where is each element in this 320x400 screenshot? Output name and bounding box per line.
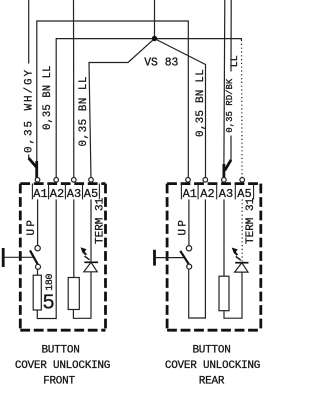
- svg-text:5: 5: [42, 293, 55, 316]
- svg-text:A3: A3: [67, 187, 81, 201]
- switch S1 top contact: [35, 246, 40, 251]
- wire R180 to A2 pin: [37, 199, 56, 318]
- LED D2 cathode bar: [235, 262, 248, 264]
- label UP right: [178, 218, 190, 236]
- arrow junction W1 into A1 wire: [29, 158, 37, 167]
- LED D1 triangle: [84, 262, 97, 272]
- pin circle A3 left: [72, 178, 77, 183]
- connector terminal bar right: [153, 250, 156, 266]
- svg-text:UP: UP: [26, 218, 38, 236]
- label 0,35 RD/BK: [225, 74, 235, 136]
- svg-text:0,35 BN LL: 0,35 BN LL: [78, 76, 90, 147]
- wire A3-right to resistor R3: [223, 199, 225, 276]
- pin circle A2 right: [203, 178, 208, 183]
- svg-text:A2: A2: [50, 187, 64, 201]
- svg-text:TERM 31: TERM 31: [94, 197, 106, 244]
- caption left line 1 BUTTON: [41, 345, 79, 357]
- wire A1 thick lead-in: [35, 161, 38, 178]
- left pin ticks: [32, 184, 99, 200]
- svg-text:0,35 WH/GY: 0,35 WH/GY: [23, 68, 35, 153]
- right pin ticks: [181, 184, 253, 200]
- pin circle A5 left: [89, 178, 94, 183]
- wire A5-left to LED: [90, 199, 92, 262]
- wire LL RD/BK: [230, 0, 232, 161]
- caption left line 2 COVER UNLOCKING: [15, 360, 110, 372]
- svg-text:REAR: REAR: [199, 376, 225, 388]
- splice branch to A2-right: [155, 39, 206, 179]
- switch S2 top contact: [186, 246, 191, 251]
- connector wire into switch blade right: [156, 257, 185, 259]
- left pin labels A1 A2 A3 A5: [33, 187, 98, 201]
- resistor R180 body: [33, 275, 41, 310]
- svg-text:VS 83: VS 83: [144, 55, 178, 69]
- pin circle A5 right: [240, 178, 245, 183]
- splice branch to A5-left: [89, 39, 155, 179]
- wire A2-left riser and splice bus to right A5 corner: [56, 39, 241, 179]
- label 0,35 BN LL (A2 left): [42, 65, 54, 130]
- svg-text:0,35 BN LL: 0,35 BN LL: [195, 69, 207, 137]
- wire R3 bottom to LED bottom right: [224, 272, 242, 318]
- label 0,35 WH/GY: [23, 68, 35, 153]
- svg-text:BUTTON: BUTTON: [41, 345, 79, 357]
- node VS 83: [152, 36, 157, 41]
- wire A1-left to switch: [37, 199, 39, 245]
- svg-text:A1: A1: [33, 187, 47, 201]
- arrow junction LL wire into A3-right: [225, 160, 231, 171]
- label LL (RD/BK wire): [230, 55, 241, 67]
- right pin labels A1 A2 A3 A5: [183, 187, 252, 201]
- pin circle A2 left: [54, 178, 59, 183]
- label VS 83: [144, 55, 178, 69]
- connector terminal bar left: [2, 248, 5, 267]
- switch S1 blade: [30, 250, 38, 265]
- LED D1 flash arrow: [81, 247, 90, 260]
- wire A3-left to resistor R2: [73, 199, 75, 277]
- caption left line 3 FRONT: [43, 376, 75, 388]
- wire A5-right dotted to LED: [241, 199, 243, 262]
- svg-text:180: 180: [45, 273, 56, 290]
- svg-text:TERM 31: TERM 31: [245, 197, 257, 244]
- label 180: [45, 273, 56, 290]
- connector wire into switch blade: [5, 256, 34, 258]
- splice VS83 riser to top: [154, 0, 156, 39]
- svg-text:A2: A2: [200, 187, 214, 201]
- wire A1-right to switch: [188, 199, 190, 245]
- right module border: [167, 184, 261, 331]
- caption right line 3 REAR: [199, 376, 225, 388]
- wire A5-right dotted drop: [241, 40, 244, 178]
- resistor R2 body: [68, 278, 79, 310]
- svg-text:COVER UNLOCKING: COVER UNLOCKING: [15, 360, 110, 372]
- label 0,35 BN LL (A2 right): [195, 69, 207, 137]
- svg-text:0,35 RD/BK: 0,35 RD/BK: [225, 78, 235, 133]
- resistor R3 body: [219, 276, 229, 311]
- wire A3-right thick lead-in: [222, 164, 225, 178]
- caption right line 2 COVER UNLOCKING: [165, 360, 260, 372]
- switch S1 bottom contact: [36, 264, 41, 269]
- svg-text:LL: LL: [230, 55, 241, 67]
- pin circle A1 left: [35, 178, 40, 183]
- label UP left: [26, 218, 38, 236]
- label 0,35 BN LL (A5 left): [78, 76, 90, 147]
- svg-text:COVER UNLOCKING: COVER UNLOCKING: [165, 360, 260, 372]
- LED D2 flash arrow: [232, 248, 241, 261]
- label ohm glyph: [42, 293, 55, 316]
- pin circle A1 right: [186, 178, 191, 183]
- svg-text:FRONT: FRONT: [43, 376, 75, 388]
- switch S2 blade: [180, 251, 189, 265]
- wire switch to A2 pin right: [189, 199, 206, 318]
- LED D1 cathode bar: [84, 261, 98, 263]
- switch S2 bottom contact: [187, 264, 192, 269]
- svg-text:A1: A1: [183, 187, 197, 201]
- left module border: [20, 184, 105, 331]
- wire A3-left: [73, 0, 75, 179]
- svg-text:0,35 BN LL: 0,35 BN LL: [42, 65, 54, 130]
- wire A3-right: [223, 0, 226, 165]
- pin circle A3 right: [222, 178, 227, 183]
- svg-text:A3: A3: [219, 187, 233, 201]
- wire switch to resistor R180: [37, 269, 39, 275]
- caption right line 1 BUTTON: [192, 345, 230, 357]
- label TERM 31 right: [245, 197, 257, 244]
- LED D2 triangle: [235, 263, 248, 272]
- wire R2 bottom to LED bottom: [73, 272, 91, 319]
- wire A1 interconnect left A1 to right A1: [37, 21, 189, 178]
- svg-text:BUTTON: BUTTON: [192, 345, 230, 357]
- svg-text:UP: UP: [178, 218, 190, 236]
- label TERM 31 left: [94, 197, 106, 244]
- wire W1 0,35 WH/GY vertical: [28, 0, 30, 159]
